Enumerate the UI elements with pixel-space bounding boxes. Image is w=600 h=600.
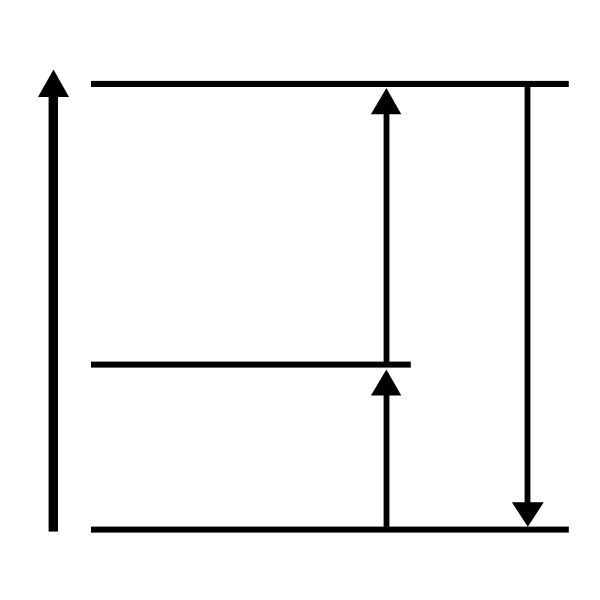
middle energy level line [91,362,411,368]
top energy level line [91,81,569,87]
up arrow from middle level to top level [371,88,401,364]
bottom energy level line [91,527,569,533]
energy axis arrow (vertical, pointing up) [38,70,69,532]
up arrow from bottom level to middle level [371,370,401,527]
down arrow from top level to bottom level [512,84,544,527]
